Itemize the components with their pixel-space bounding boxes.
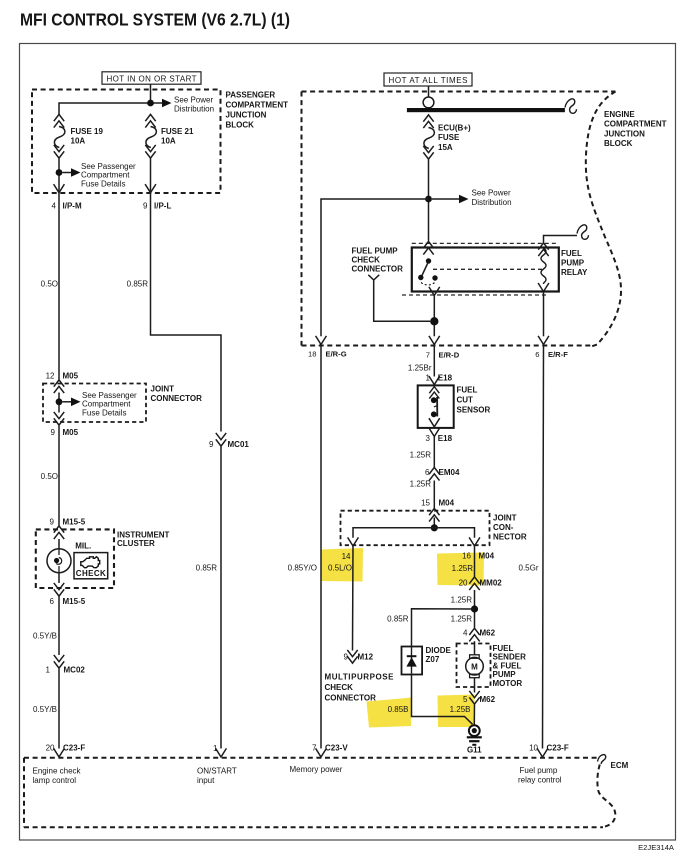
wire 0.85Y/O E/R-G down to ECM pin 7 — [320, 345, 322, 749]
svg-text:E18: E18 — [438, 374, 453, 383]
ECM dashed box — [24, 757, 599, 759]
svg-text:ECU(B+): ECU(B+) — [438, 124, 471, 133]
svg-text:9: 9 — [344, 653, 349, 662]
svg-text:12: 12 — [46, 372, 55, 381]
svg-text:E/R-D: E/R-D — [439, 351, 460, 360]
fuel pump check connector fork — [368, 275, 379, 280]
svg-text:7: 7 — [312, 744, 317, 753]
label HOT AT ALL TIMES — [384, 73, 472, 86]
svg-text:14: 14 — [342, 552, 351, 561]
svg-text:FUEL: FUEL — [493, 644, 514, 653]
svg-text:4: 4 — [463, 629, 468, 638]
svg-text:I/P-M: I/P-M — [63, 202, 82, 211]
svg-text:E2JE314A: E2JE314A — [638, 843, 675, 852]
svg-text:FUEL: FUEL — [561, 249, 582, 258]
svg-text:CHECK: CHECK — [352, 256, 381, 265]
wire branch to pin 16 — [434, 528, 474, 538]
svg-text:1: 1 — [426, 374, 431, 383]
svg-text:Fuse Details: Fuse Details — [81, 179, 125, 188]
engine compartment junction block dashed boundary — [302, 91, 616, 93]
wire 1.25B M62 to ground — [473, 705, 475, 726]
svg-text:CONNECTOR: CONNECTOR — [325, 694, 377, 703]
connector 7 E/R-D — [429, 336, 440, 345]
svg-text:9: 9 — [50, 518, 55, 527]
svg-text:COMPARTMENT: COMPARTMENT — [604, 120, 667, 129]
lamp MIL (indicator bulb) — [47, 549, 71, 573]
connector pin 20 C23-F — [54, 748, 65, 757]
highlight 0.5L/O — [321, 548, 364, 582]
connector 15 M04 — [429, 508, 439, 521]
svg-text:NECTOR: NECTOR — [493, 532, 527, 541]
connector pin 10 C23-F — [537, 748, 548, 757]
svg-text:MFI CONTROL SYSTEM (V6 2.7L) (: MFI CONTROL SYSTEM (V6 2.7L) (1) — [20, 10, 290, 30]
svg-text:C23-F: C23-F — [547, 744, 569, 753]
fuse ECU(B+) 15A — [423, 115, 471, 159]
wire 1.25R pin16 down to MM02 — [474, 546, 476, 577]
connector pin 16 M04 — [469, 537, 480, 546]
svg-text:PUMP: PUMP — [493, 670, 517, 679]
wire 0.85R MC01 down to ECM pin 1 — [220, 447, 222, 749]
svg-text:CON-: CON- — [493, 523, 514, 532]
svg-text:BLOCK: BLOCK — [604, 139, 633, 148]
svg-text:PUMP: PUMP — [561, 259, 585, 268]
svg-text:1: 1 — [46, 666, 51, 675]
svg-text:See Power: See Power — [472, 188, 511, 197]
connector 6 M15-5 — [54, 583, 64, 596]
relay junction-block dashed pass-through lines — [412, 242, 557, 244]
svg-text:See Passenger: See Passenger — [81, 162, 136, 171]
svg-text:G11: G11 — [467, 746, 482, 755]
svg-text:MC01: MC01 — [228, 440, 250, 449]
svg-text:M04: M04 — [479, 551, 495, 560]
connector 9 M12 — [347, 650, 357, 663]
svg-text:FUEL: FUEL — [457, 386, 478, 395]
svg-text:Fuel pump: Fuel pump — [520, 766, 558, 775]
highlight 1.25B — [438, 695, 475, 728]
svg-text:Z07: Z07 — [426, 655, 440, 664]
wire fuse to power node — [428, 160, 430, 241]
svg-text:0.85B: 0.85B — [388, 705, 409, 714]
svg-text:20: 20 — [46, 744, 55, 753]
fuel sender and fuel pump motor dashed box — [457, 644, 491, 688]
wire E/R-G branch from power node — [321, 199, 429, 336]
wire 0.5L/O pin14 down to M12 — [352, 546, 355, 651]
bus bar continuation hook — [565, 99, 577, 113]
highlight 1.25R — [437, 553, 484, 586]
svg-text:0.5L/O: 0.5L/O — [328, 564, 352, 573]
connector 20 MM02 — [469, 577, 479, 590]
wire 1.25R E18 to EM04 — [433, 437, 435, 468]
svg-text:SENDER: SENDER — [493, 653, 527, 662]
svg-text:10A: 10A — [71, 137, 86, 146]
svg-text:M: M — [471, 663, 478, 672]
svg-text:C23-V: C23-V — [325, 744, 348, 753]
connector pin 7 C23-V — [316, 748, 327, 757]
ground G11 — [469, 725, 480, 736]
wire inside M05 — [58, 393, 60, 413]
connector pin 4 I/P-M — [54, 184, 65, 193]
svg-text:C23-F: C23-F — [63, 744, 85, 753]
connector 1 MC02 — [54, 655, 64, 668]
relay coil — [538, 243, 548, 256]
wire relay coil feed with continuation hook — [544, 236, 578, 243]
svg-text:RELAY: RELAY — [561, 268, 588, 277]
wire from HOT IN box down to junction — [150, 84, 152, 100]
wire inside joint connector — [433, 518, 435, 528]
wire 0.85R I/P-L down, jog right, down to MC01 — [151, 193, 222, 432]
svg-text:FUSE: FUSE — [438, 133, 460, 142]
svg-text:FUSE 19: FUSE 19 — [71, 127, 104, 136]
svg-text:MIL.: MIL. — [75, 542, 91, 551]
connector 5 M62 — [469, 691, 479, 704]
svg-text:4: 4 — [52, 202, 57, 211]
wire horizontal feed to fuse 19 — [59, 103, 151, 115]
connector 18 E/R-G — [316, 336, 327, 345]
svg-text:lamp control: lamp control — [33, 776, 77, 785]
highlight 0.85B — [367, 698, 412, 728]
wire relay coil to E/R-F — [543, 292, 545, 337]
svg-text:0.5Gr: 0.5Gr — [519, 564, 539, 573]
arrow see power distribution (left) — [154, 102, 163, 104]
wire 0.5O M05 to M15-5 — [58, 426, 60, 526]
svg-text:Memory power: Memory power — [290, 765, 343, 774]
svg-text:15: 15 — [421, 499, 430, 508]
wire branch to pin 14 — [353, 528, 434, 538]
arrow see power distribution (top) — [432, 198, 459, 200]
svg-text:1.25R: 1.25R — [451, 596, 473, 605]
svg-text:M62: M62 — [480, 629, 496, 638]
svg-text:0.85R: 0.85R — [127, 280, 149, 289]
svg-text:Distribution: Distribution — [174, 105, 214, 114]
svg-text:5: 5 — [463, 695, 468, 704]
svg-text:Distribution: Distribution — [472, 198, 512, 207]
node M05 tap — [56, 398, 63, 405]
svg-text:HOT AT ALL TIMES: HOT AT ALL TIMES — [389, 76, 468, 85]
node bus terminal circle — [423, 97, 434, 108]
fuel cut sensor box — [418, 385, 454, 428]
svg-text:CONNECTOR: CONNECTOR — [352, 264, 404, 273]
svg-text:MULTIPURPOSE: MULTIPURPOSE — [325, 673, 395, 682]
connector pin 1 (ON/START) — [216, 748, 227, 757]
connector 9 MC01 — [216, 433, 226, 446]
svg-text:9: 9 — [143, 202, 148, 211]
svg-text:BLOCK: BLOCK — [226, 121, 255, 130]
svg-text:See Power: See Power — [174, 96, 213, 105]
connector 1 E18 — [429, 376, 440, 385]
node fuse detail tap — [56, 169, 63, 176]
label HOT IN ON OR START — [102, 72, 201, 84]
wire lamp to pin 6 — [58, 573, 60, 583]
svg-text:MC02: MC02 — [64, 666, 86, 675]
svg-text:M62: M62 — [480, 695, 496, 704]
svg-text:FUSE 21: FUSE 21 — [161, 127, 194, 136]
diode symbol — [411, 647, 413, 675]
svg-text:7: 7 — [426, 351, 430, 360]
wire relay output down — [433, 296, 435, 337]
svg-text:I/P-L: I/P-L — [154, 202, 171, 211]
fuel pump relay box — [412, 248, 559, 292]
fuse F21 (FUSE 21 10A) — [145, 114, 194, 158]
svg-text:6: 6 — [425, 468, 430, 477]
svg-text:CUT: CUT — [457, 396, 474, 405]
instrument cluster dashed box — [36, 529, 114, 588]
svg-text:Compartment: Compartment — [82, 400, 131, 409]
svg-text:PASSENGER: PASSENGER — [226, 91, 276, 100]
svg-text:Fuse Details: Fuse Details — [82, 408, 126, 417]
passenger compartment junction block dashed box — [32, 90, 221, 194]
fuel cut sensor internals — [429, 387, 439, 399]
wire 0.5Y/B M15-5 to MC02 — [58, 597, 60, 656]
node joint connector split — [431, 524, 438, 531]
wire 0.5Y/B MC02 to ECM pin 20 — [58, 669, 60, 749]
svg-text:M15-5: M15-5 — [63, 518, 86, 527]
svg-text:M05: M05 — [63, 428, 79, 437]
wire 0.85R branch to diode — [412, 609, 475, 647]
svg-text:HOT IN ON OR START: HOT IN ON OR START — [107, 74, 197, 83]
svg-text:relay control: relay control — [518, 776, 562, 785]
svg-text:0.85Y/O: 0.85Y/O — [288, 564, 317, 573]
svg-text:M05: M05 — [63, 372, 79, 381]
node fuel pump check tap — [430, 317, 438, 325]
svg-text:JUNCTION: JUNCTION — [604, 129, 645, 138]
svg-text:0.85R: 0.85R — [196, 564, 218, 573]
wire 1.25R EM04 to M04 — [433, 481, 435, 509]
svg-text:ON/START: ON/START — [197, 767, 237, 776]
svg-text:FUEL PUMP: FUEL PUMP — [352, 247, 399, 256]
svg-text:10A: 10A — [161, 137, 176, 146]
svg-text:0.5Y/B: 0.5Y/B — [33, 705, 57, 714]
svg-text:M15-5: M15-5 — [63, 597, 86, 606]
relay switch pin (top) — [423, 241, 433, 254]
lamp CHECK (check engine indicator) — [74, 553, 108, 579]
svg-text:Engine check: Engine check — [33, 767, 82, 776]
wire 1.25R MM02 to diode tap node — [474, 590, 476, 628]
svg-text:MM02: MM02 — [480, 578, 503, 587]
connector 6 EM04 — [429, 467, 439, 480]
node diode branch tap — [471, 605, 478, 612]
wire 0.85B diode to ground join — [412, 675, 473, 725]
connector pin 9 I/P-L — [145, 184, 156, 193]
arrow see passenger compartment fuse details (M05) — [63, 401, 72, 403]
svg-text:& FUEL: & FUEL — [493, 661, 522, 670]
svg-text:1: 1 — [213, 744, 218, 753]
svg-text:1.25B: 1.25B — [450, 705, 471, 714]
wire into MIL lamp — [58, 539, 60, 549]
connector 9 M05 — [54, 412, 64, 425]
svg-text:CHECK: CHECK — [76, 569, 106, 578]
svg-text:20: 20 — [459, 578, 468, 587]
svg-text:1.25R: 1.25R — [410, 450, 432, 459]
connector pin 14 — [348, 537, 359, 546]
arrow see passenger compartment fuse details — [63, 172, 72, 174]
svg-text:JOINT: JOINT — [493, 513, 517, 522]
wire fuse19 to I/P-M — [58, 159, 60, 193]
svg-text:Compartment: Compartment — [81, 171, 130, 180]
svg-text:input: input — [197, 776, 215, 785]
svg-text:1.25Br: 1.25Br — [408, 363, 432, 372]
svg-text:15A: 15A — [438, 143, 453, 152]
svg-text:6: 6 — [535, 350, 539, 359]
svg-text:EM04: EM04 — [439, 468, 460, 477]
wire 0.5Gr E/R-F down to ECM pin 10 — [543, 345, 544, 749]
svg-text:SENSOR: SENSOR — [457, 406, 491, 415]
connector 6 E/R-F — [538, 336, 549, 345]
joint connector M05 dashed box — [43, 384, 146, 423]
svg-text:1.25R: 1.25R — [452, 564, 474, 573]
svg-text:JOINT: JOINT — [151, 385, 175, 394]
svg-text:1.25R: 1.25R — [410, 480, 432, 489]
svg-text:See Passenger: See Passenger — [82, 391, 137, 400]
svg-text:M12: M12 — [358, 653, 374, 662]
svg-text:ENGINE: ENGINE — [604, 110, 635, 119]
svg-text:6: 6 — [50, 597, 55, 606]
svg-text:COMPARTMENT: COMPARTMENT — [226, 101, 289, 110]
fuse F19 (FUSE 19 10A) — [54, 114, 104, 158]
svg-text:E18: E18 — [438, 434, 453, 443]
wire HOT AT ALL TIMES into bus — [428, 86, 430, 97]
motor M (fuel pump motor) — [474, 641, 476, 655]
bus bar — [407, 108, 565, 112]
connector 9 M15-5 — [54, 526, 64, 539]
svg-text:0.5O: 0.5O — [41, 472, 58, 481]
node power distribution tap — [425, 196, 432, 203]
diode Z07 box — [402, 647, 423, 675]
svg-text:18: 18 — [308, 350, 316, 359]
node power junction at fuse 21 top — [147, 100, 154, 107]
svg-text:0.5Y/B: 0.5Y/B — [33, 632, 57, 641]
svg-text:CONNECTOR: CONNECTOR — [151, 394, 203, 403]
connector 4 M62 — [469, 628, 479, 641]
svg-text:16: 16 — [462, 551, 471, 560]
wire 0.5O I/P-M down to M05 — [58, 193, 60, 380]
svg-text:E/R-F: E/R-F — [548, 350, 568, 359]
relay switch output pin — [429, 287, 440, 296]
svg-text:CHECK: CHECK — [325, 683, 354, 692]
svg-text:ECM: ECM — [611, 761, 629, 770]
svg-text:CLUSTER: CLUSTER — [117, 539, 155, 548]
svg-text:10: 10 — [529, 744, 538, 753]
ECM continuation hook — [598, 755, 606, 764]
svg-text:0.85R: 0.85R — [387, 615, 409, 624]
svg-text:9: 9 — [209, 440, 214, 449]
connector 12 M05 — [54, 380, 64, 393]
svg-text:0.5O: 0.5O — [41, 280, 58, 289]
svg-text:9: 9 — [51, 428, 56, 437]
wire fuse21 to I/P-L — [150, 159, 152, 193]
svg-text:JUNCTION: JUNCTION — [226, 111, 267, 120]
relay switch — [426, 258, 431, 263]
wire 1.25Br E/R-D to E18 — [433, 345, 435, 377]
svg-text:3: 3 — [426, 434, 431, 443]
joint connector M04 dashed box — [341, 511, 490, 546]
svg-text:1.25R: 1.25R — [451, 615, 473, 624]
svg-text:MOTOR: MOTOR — [493, 679, 523, 688]
svg-text:E/R-G: E/R-G — [326, 350, 347, 359]
connector 3 E18 — [429, 428, 440, 437]
svg-text:M04: M04 — [439, 499, 455, 508]
